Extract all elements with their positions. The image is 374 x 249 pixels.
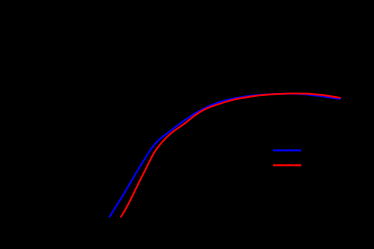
- red curve: [121, 94, 340, 217]
- legend blue line: [273, 149, 301, 151]
- legend red line: [273, 164, 301, 166]
- blue curve: [110, 94, 341, 217]
